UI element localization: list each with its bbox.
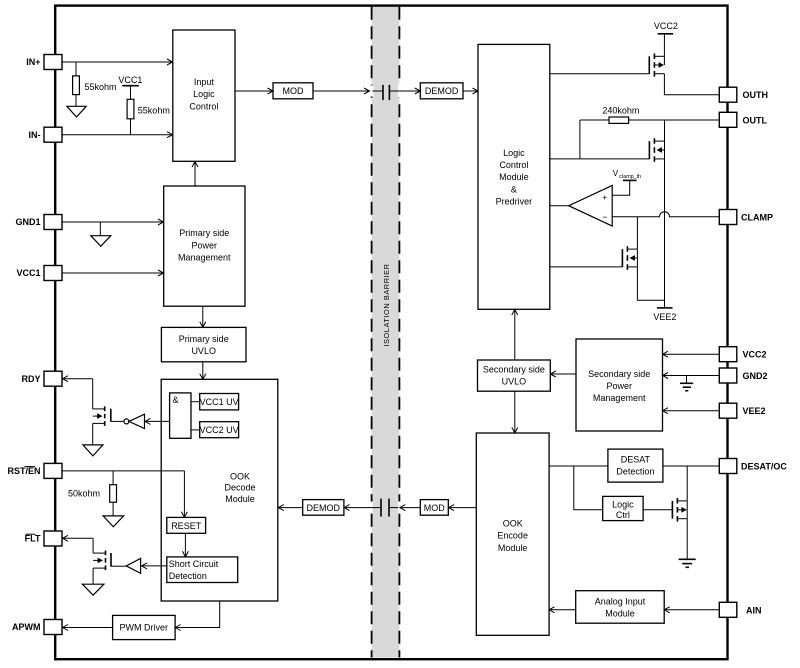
svg-text:ISOLATION BARRIER: ISOLATION BARRIER [382,263,391,346]
wire Q5 source to ground [92,423,94,445]
svg-text:VCC2: VCC2 [654,21,678,31]
wire MOD to isolation capacitor [313,88,383,94]
transistor Q5 NMOS RDY (mirrored) [93,406,111,426]
wire SSPM to Secondary UVLO [550,371,576,377]
svg-text:Detection: Detection [616,467,654,477]
wire GND2 pin to SSPM [663,373,720,379]
transistor Q1 PMOS OUTH [550,53,664,76]
svg-text:FLT: FLT [25,534,41,544]
wire capacitor to DEMOD bottom [344,505,381,511]
wire Q6 source to ground [92,568,94,584]
wire Q4 drain up to DESAT wire [686,466,688,501]
wire Analog Input Module to OOK Encode [549,607,576,613]
svg-text:IN-: IN- [29,130,41,140]
svg-text:Power: Power [192,240,218,250]
inverter U3 RDY (with bubble) [111,414,145,428]
svg-text:Decode: Decode [224,483,255,493]
svg-text:OOK: OOK [503,518,523,528]
svg-text:DESAT/OC: DESAT/OC [741,462,787,472]
svg-text:VCC2 UV: VCC2 UV [200,425,239,435]
pin APWM [12,620,62,635]
svg-text:GND1: GND1 [15,217,40,227]
svg-text:Secondary side: Secondary side [588,369,650,379]
svg-text:Analog Input: Analog Input [595,596,646,606]
pin FLT [25,531,62,546]
AND gate box inside OOK decode [170,393,191,438]
comparator U2 [569,186,613,227]
wire Logic Ctrl to Q4 gate [643,509,672,511]
svg-text:&: & [173,395,179,405]
wire RDY pin to Q5 [63,376,93,409]
svg-text:Module: Module [498,543,528,553]
wire OUTL with resistor 240kohm [580,106,719,124]
pin DESAT/OC [719,459,787,474]
wire GND1 to Primary side Power Management [62,219,164,225]
ground under Q6 [82,584,104,595]
wire OUTL branch down to gate line [579,120,581,159]
svg-text:RESET: RESET [171,521,202,531]
block: OOK Decode Module [161,379,278,601]
svg-text:AIN: AIN [746,605,762,615]
svg-text:OUTH: OUTH [743,90,769,100]
svg-text:VEE2: VEE2 [743,406,766,416]
wire Q2 source down to VEE2 [664,159,666,308]
wire DEMOD bottom to OOK Decode [278,505,302,511]
block: DEMOD (top) [420,83,463,99]
block: Input Logic Control U1 [173,30,235,161]
capacitor C2 isolation bottom [381,499,389,517]
transistor Q3 NMOS clamp [622,246,637,270]
svg-text:Short Circuit: Short Circuit [169,559,219,569]
wire AND to VCC2 UV [191,429,200,431]
wire Q3 source down to VEE2 line [637,267,664,300]
pin IN- [29,127,63,142]
svg-text:Input: Input [194,77,215,87]
pin AIN [719,602,761,617]
wire Q2 drain up to OUTL [664,120,666,141]
svg-text:Secondary side: Secondary side [483,365,545,375]
power rail VCC2 top [654,21,678,65]
wire IN- to Input Logic Control [62,132,173,138]
block: Logic Ctrl [603,496,643,520]
block: Logic Control Module & Predriver [478,44,550,309]
wire comparator output to Logic Control [550,205,569,207]
resistor R1 55kohm on IN+ [73,62,117,106]
svg-text:VCC2: VCC2 [743,350,767,360]
svg-text:Management: Management [593,393,646,403]
power rail VEE2 [653,308,676,322]
svg-text:&: & [511,184,517,194]
wire OOK Encode to DESAT Detection [549,465,608,467]
power rail VCC1 with resistor R2 55kohm [118,75,169,135]
wire FLT pin to Q6 [63,535,94,553]
svg-text:RST/EN: RST/EN [7,466,40,476]
inverter U4 FLT [111,558,141,573]
svg-text:Primary side: Primary side [179,334,229,344]
svg-text:MOD: MOD [424,503,445,513]
pin VCC2 [719,347,766,362]
svg-text:CLAMP: CLAMP [741,213,773,223]
capacitor C1 isolation top [383,85,389,100]
wire DESAT Detection to DESAT/OC pin [663,465,719,467]
earth ground on GND2 wire [680,376,693,391]
svg-text:+: + [602,192,607,202]
ground under R3 [103,516,124,527]
block: VCC1 UV [200,394,239,410]
svg-text:VEE2: VEE2 [653,312,676,322]
wire OOK Decode bottom to PWM Driver [175,601,220,631]
svg-text:Module: Module [225,494,255,504]
svg-text:240kohm: 240kohm [602,106,639,116]
isolation barrier label [382,263,391,346]
svg-text:VCC1 UV: VCC1 UV [200,397,239,407]
block: MOD (bottom) [420,500,448,516]
wire RST/EN pin into OOK decode and down to RESET [62,471,187,517]
svg-text:OUTL: OUTL [743,115,768,125]
wire MOD bottom to isolation capacitor [389,505,420,511]
svg-text:APWM: APWM [12,622,41,632]
block: Analog Input Module [576,591,665,624]
svg-text:Detection: Detection [169,571,207,581]
pin CLAMP [719,210,773,225]
svg-text:DEMOD: DEMOD [425,86,459,96]
wire DESAT branch down to Logic Ctrl [574,466,603,510]
svg-text:Encode: Encode [497,531,528,541]
wire Short Circuit Detection to inverter U4 [142,563,167,569]
pin RST/EN [7,463,62,478]
svg-text:clamp_th: clamp_th [619,174,641,180]
wire minus input branch down to Q3 drain [636,217,638,249]
wire Primary UVLO down to OOK Decode Module [200,362,206,379]
block: VCC2 UV [200,422,239,438]
transistor Q4 NMOS DESAT [672,498,687,522]
pin OUTH [719,87,768,102]
svg-text:−: − [602,212,607,222]
svg-text:PWM Driver: PWM Driver [120,623,169,633]
isolation barrier strip [369,7,401,658]
block: DEMOD (bottom) [303,500,344,516]
wire Logic Control to Q3 gate [550,266,622,268]
svg-text:RDY: RDY [21,374,40,384]
wire VEE2 pin to SSPM [663,408,720,414]
svg-text:55kohm: 55kohm [138,106,170,116]
svg-text:VCC1: VCC1 [118,75,142,85]
svg-text:Predriver: Predriver [496,197,533,207]
svg-text:50kohm: 50kohm [68,489,100,499]
wire Q4 source down to ground [686,519,688,560]
svg-text:Logic: Logic [612,499,634,509]
ground under R1 [67,106,86,117]
block: RESET [167,517,206,533]
wire VCC2 pin to SSPM [663,351,720,357]
block: PWM Driver [113,615,176,639]
wire RESET to Short Circuit Detection [182,533,188,557]
block: Short Circuit Detection [167,557,238,583]
resistor R3 50kohm on RST/EN [68,471,117,516]
block: MOD (top) [273,83,313,99]
svg-text:Control: Control [499,160,528,170]
wire ILC to MOD [235,88,273,94]
ground under Q5 [83,445,103,456]
wire VCC1 to Primary side Power Management [62,270,164,276]
block: Primary side UVLO [161,327,246,361]
wire Logic Control bottom to Secondary UVLO (up arrow) [512,310,518,361]
wire Logic Control to Q2 gate [550,158,649,160]
svg-text:VCC1: VCC1 [16,268,40,278]
pin RDY [21,371,62,386]
svg-text:V: V [613,169,619,178]
wire AIN pin to Analog Input Module [664,607,719,613]
svg-text:Logic: Logic [193,89,215,99]
wire PWM Driver to APWM pin [63,625,113,631]
label Vclamp_th [613,169,641,180]
pin VCC1 [16,266,62,281]
pin VEE2 [719,403,765,418]
pin GND1 [15,215,62,230]
transistor Q6 NMOS FLT (mirrored) [93,551,111,571]
wire Vclamp_th rail to comparator plus input [612,180,636,195]
pin OUTL [719,112,767,127]
block: OOK Encode Module [476,433,549,635]
wire Q1 source to OUTH [664,74,719,95]
svg-text:IN+: IN+ [26,57,40,67]
svg-text:DEMOD: DEMOD [307,503,341,513]
wire IN+ to Input Logic Control [62,59,173,65]
wire OOK Encode to MOD bottom [449,505,477,511]
svg-text:Logic: Logic [503,148,525,158]
svg-text:UVLO: UVLO [191,346,216,356]
ground on GND1 wire [91,222,111,246]
pin IN+ [26,55,62,70]
svg-text:UVLO: UVLO [502,376,527,386]
svg-text:Management: Management [178,253,231,263]
block: DESAT Detection [608,449,663,482]
wire PSPM up to Input Logic Control [192,162,198,187]
wire DEMOD to Logic Control Module [463,88,478,94]
transistor Q2 NMOS OUTL [649,138,664,162]
svg-text:Power: Power [606,381,632,391]
wire AND gate to inverter U3 [145,418,170,424]
block: Secondary side Power Management [576,339,663,431]
svg-text:Module: Module [605,609,635,619]
pin GND2 [719,368,767,383]
block: Primary side Power Management [164,186,245,306]
svg-text:Ctrl: Ctrl [616,510,630,520]
svg-text:Primary side: Primary side [179,228,229,238]
wire comparator minus input to CLAMP with hop [612,212,719,217]
svg-text:Module: Module [499,172,529,182]
block: Secondary side UVLO [478,360,551,391]
svg-text:OOK: OOK [230,471,250,481]
svg-text:MOD: MOD [283,86,304,96]
wire capacitor to DEMOD [389,88,420,94]
wire AND to VCC1 UV [191,401,200,403]
earth ground under Q4 [679,559,696,567]
wire Secondary UVLO down to OOK Encode [512,391,518,433]
svg-text:Control: Control [189,101,218,111]
svg-text:55kohm: 55kohm [85,82,117,92]
svg-text:GND2: GND2 [743,371,768,381]
svg-text:DESAT: DESAT [621,454,651,464]
wire PSPM down to Primary side UVLO [200,306,206,327]
